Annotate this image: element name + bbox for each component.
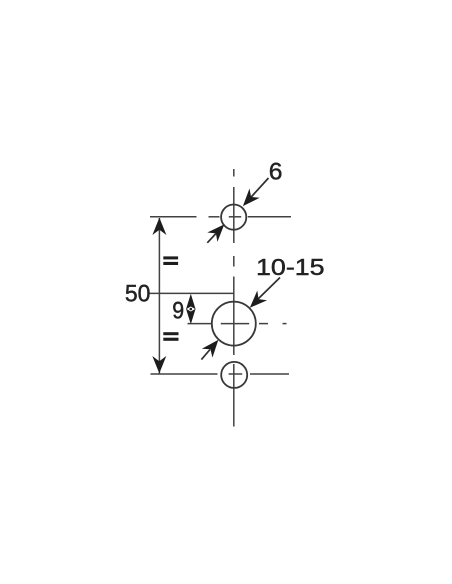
leader shaft lower-left of top hole (207, 234, 216, 243)
middle hole horizontal centerline left segment (188, 323, 213, 325)
vertical centerline solid through middle hole (233, 277, 235, 356)
top hole circle d6 (221, 205, 246, 230)
middle hole circle d10-15 (212, 302, 256, 346)
bottom hole horizontal centerline center tick (229, 373, 243, 375)
arrowhead of label 10-15 leader (245, 291, 267, 313)
vertical centerline solid through top hole (233, 187, 235, 243)
svg-text:6: 6 (269, 159, 283, 186)
top hole horizontal centerline short dash (209, 216, 220, 218)
9-dimension down arrow (186, 309, 196, 324)
vertical dimension line 50 (158, 218, 160, 374)
leader shaft lower-left of middle hole (201, 350, 210, 360)
arrowhead lower-left of middle hole (202, 335, 224, 357)
9-dimension center dot (190, 308, 193, 311)
top hole horizontal centerline left segment (150, 216, 197, 218)
middle hole horizontal centerline right dash (259, 323, 268, 325)
equality mark upper bar1 (163, 256, 178, 259)
svg-text:50: 50 (125, 281, 151, 308)
arrowhead down of 50 dimension (152, 356, 166, 373)
leader shaft for label 10-15 (256, 278, 280, 302)
leader shaft for label 6 (248, 178, 269, 201)
arrowhead of label 6 leader (238, 188, 260, 210)
top hole horizontal centerline right segment (248, 216, 291, 218)
vertical centerline dash between holes (233, 256, 235, 267)
vertical centerline solid through bottom hole (233, 364, 235, 427)
bottom hole horizontal centerline left segment (151, 373, 218, 375)
mid 50-dimension horizontal line (150, 292, 234, 294)
equality mark lower bar1 (163, 332, 178, 335)
middle hole horizontal centerline center tick (221, 323, 249, 325)
9-dimension up arrow (186, 294, 196, 309)
svg-text:9: 9 (172, 297, 184, 324)
svg-text:10-15: 10-15 (256, 254, 325, 280)
equality mark upper bar2 (163, 262, 178, 265)
arrowhead up of 50 dimension (152, 218, 166, 235)
equality mark lower bar2 (163, 338, 178, 341)
vertical centerline dash above top hole (233, 169, 235, 177)
middle hole horizontal centerline right dot (283, 323, 287, 325)
top hole horizontal centerline center tick (229, 216, 241, 218)
bottom hole horizontal centerline right segment (250, 373, 289, 375)
arrowhead lower-left of top hole (207, 220, 229, 242)
bottom hole circle (221, 362, 247, 388)
